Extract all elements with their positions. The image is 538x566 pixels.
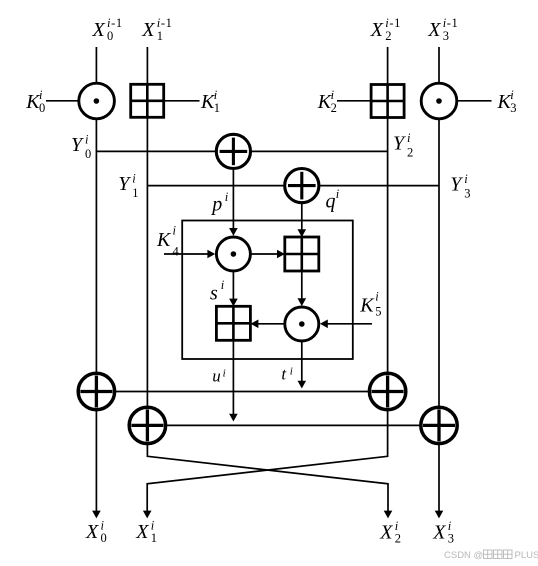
svg-text:1: 1 <box>157 29 163 43</box>
svg-text:Y: Y <box>118 173 131 195</box>
svg-text:p: p <box>210 194 222 216</box>
svg-text:2: 2 <box>331 101 337 115</box>
svg-text:Y: Y <box>71 134 84 156</box>
svg-text:i: i <box>39 88 43 102</box>
svg-text:i: i <box>407 131 411 145</box>
svg-text:i: i <box>221 278 225 292</box>
svg-text:i: i <box>214 88 218 102</box>
svg-text:PLUS: PLUS <box>515 550 538 561</box>
svg-text:i-1: i-1 <box>157 16 173 30</box>
svg-text:i: i <box>331 88 335 102</box>
svg-text:X: X <box>427 19 441 41</box>
svg-text:i: i <box>173 224 177 238</box>
svg-text:0: 0 <box>85 147 91 161</box>
svg-text:3: 3 <box>443 29 449 43</box>
svg-text:3: 3 <box>464 187 470 201</box>
svg-text:1: 1 <box>214 101 220 115</box>
svg-text:1: 1 <box>132 186 138 200</box>
svg-text:X: X <box>135 521 149 543</box>
svg-text:CSDN @: CSDN @ <box>444 550 483 561</box>
svg-text:i-1: i-1 <box>385 16 401 30</box>
svg-text:i: i <box>290 366 293 378</box>
svg-text:X: X <box>85 521 99 543</box>
svg-text:X: X <box>379 522 393 544</box>
svg-text:i: i <box>464 172 468 186</box>
svg-text:X: X <box>92 19 106 41</box>
svg-text:0: 0 <box>107 29 113 43</box>
svg-text:2: 2 <box>395 532 401 546</box>
svg-text:0: 0 <box>39 101 45 115</box>
svg-text:i: i <box>510 88 514 102</box>
svg-text:i: i <box>375 290 379 304</box>
svg-text:i: i <box>223 368 226 380</box>
svg-text:i-1: i-1 <box>443 16 459 30</box>
svg-text:Y: Y <box>393 133 406 155</box>
svg-text:i: i <box>132 172 136 186</box>
svg-text:X: X <box>432 522 446 544</box>
svg-text:Y: Y <box>450 174 463 196</box>
svg-text:t: t <box>281 365 287 384</box>
svg-text:K: K <box>156 229 172 251</box>
svg-text:K: K <box>359 294 375 316</box>
svg-text:i: i <box>225 190 229 204</box>
svg-text:i: i <box>336 187 340 201</box>
svg-text:2: 2 <box>407 146 413 160</box>
svg-text:4: 4 <box>173 245 180 259</box>
svg-text:X: X <box>141 19 155 41</box>
svg-text:3: 3 <box>448 532 454 546</box>
svg-text:5: 5 <box>375 304 381 318</box>
svg-text:3: 3 <box>510 101 516 115</box>
svg-text:i: i <box>85 133 89 147</box>
svg-text:0: 0 <box>101 531 107 545</box>
svg-text:X: X <box>370 19 384 41</box>
svg-text:u: u <box>212 366 221 385</box>
svg-text:i-1: i-1 <box>107 16 123 30</box>
svg-text:1: 1 <box>151 531 157 545</box>
svg-text:q: q <box>326 190 336 212</box>
svg-text:s: s <box>210 282 218 304</box>
svg-text:2: 2 <box>385 29 391 43</box>
